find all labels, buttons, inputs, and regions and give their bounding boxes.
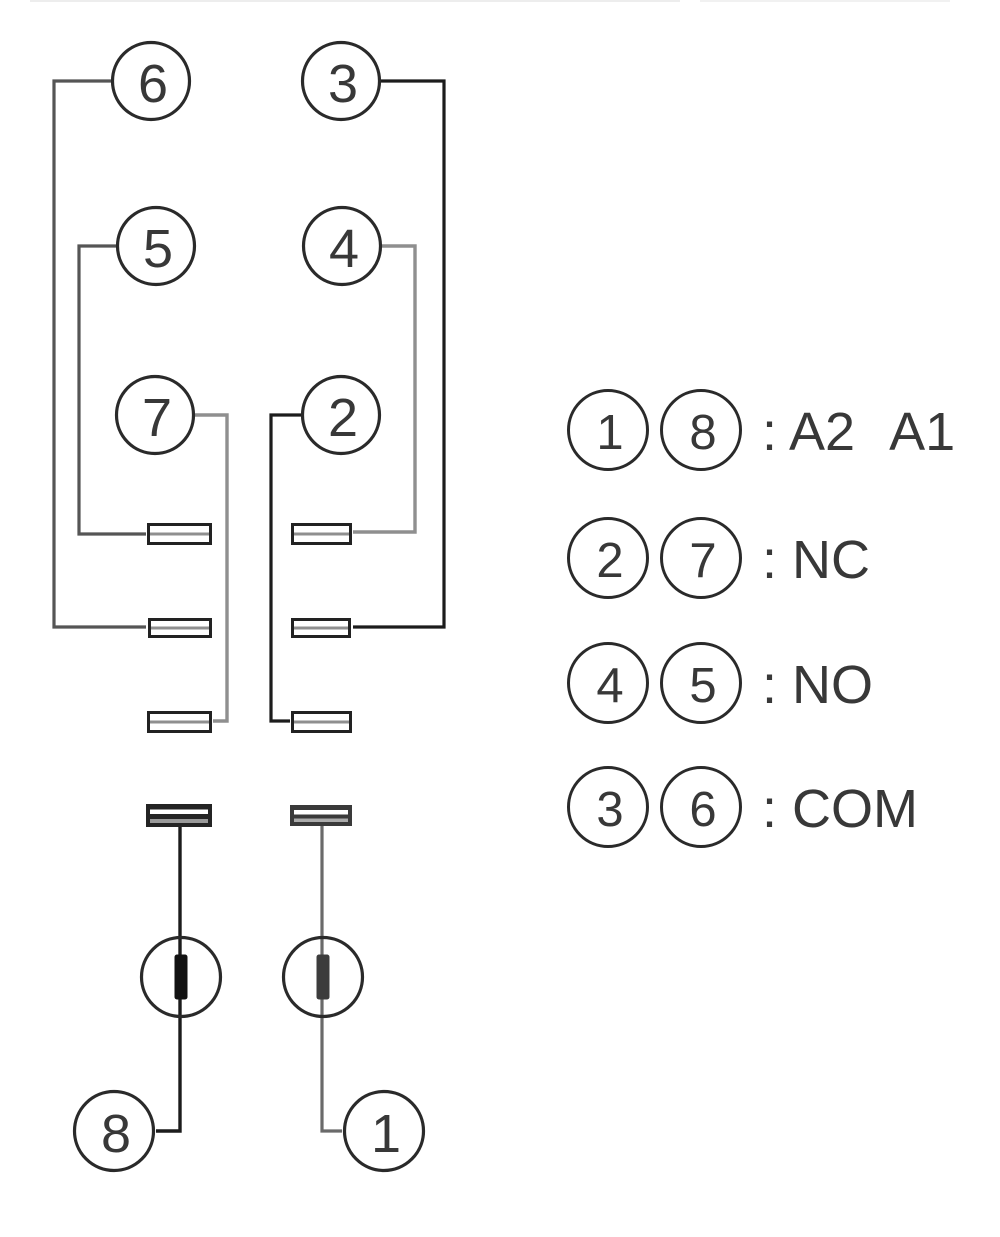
- svg-text:: COM: : COM: [762, 779, 918, 839]
- svg-text:1: 1: [596, 406, 623, 460]
- svg-text:5: 5: [143, 219, 173, 279]
- svg-text:8: 8: [101, 1104, 131, 1164]
- svg-text:3: 3: [328, 54, 358, 114]
- svg-text:6: 6: [138, 54, 168, 114]
- svg-text:5: 5: [689, 659, 716, 713]
- svg-text:4: 4: [329, 219, 359, 279]
- svg-text:6: 6: [689, 783, 716, 837]
- svg-text:2: 2: [328, 388, 358, 448]
- svg-text:7: 7: [142, 388, 172, 448]
- svg-text:2: 2: [596, 534, 623, 588]
- svg-text:: NO: : NO: [762, 655, 873, 715]
- svg-text:8: 8: [689, 406, 716, 460]
- svg-text:: A2 A1: : A2 A1: [762, 402, 955, 462]
- svg-text:3: 3: [596, 783, 623, 837]
- svg-text:4: 4: [596, 659, 623, 713]
- svg-text:: NC: : NC: [762, 530, 870, 590]
- svg-text:1: 1: [371, 1104, 401, 1164]
- svg-text:7: 7: [689, 534, 716, 588]
